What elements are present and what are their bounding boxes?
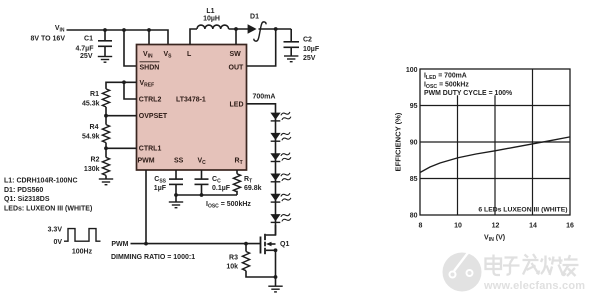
junction OUT node (274, 27, 278, 31)
capacitor C1 (75, 30, 112, 60)
LED 6 (270, 212, 292, 222)
svg-text:LT3478-1: LT3478-1 (176, 97, 206, 104)
wire PWM line (131, 243, 261, 245)
ground Q1 (268, 286, 282, 292)
svg-text:95: 95 (410, 103, 418, 110)
junction CTRL1 (104, 146, 108, 150)
svg-text:69.8k: 69.8k (244, 185, 262, 192)
wire VIN rail (67, 30, 169, 45)
capacitor CC (195, 176, 231, 192)
svg-text:85: 85 (410, 176, 418, 183)
svg-text:R4: R4 (90, 124, 99, 131)
svg-text:D1: PDS560: D1: PDS560 (4, 187, 43, 194)
svg-text:90: 90 (410, 140, 418, 147)
svg-text:100: 100 (406, 67, 418, 74)
junction Q1 source (274, 248, 278, 252)
svg-text:R3: R3 (229, 254, 238, 261)
svg-text:80: 80 (410, 213, 418, 220)
IC U1 LT3478-1 body (137, 45, 247, 171)
wire VC pin (201, 170, 203, 179)
LED 1 (270, 111, 292, 121)
wire LED chain (275, 113, 277, 235)
wire CTRL1 (106, 147, 137, 149)
graph annotations (424, 73, 512, 98)
svg-text:10µF: 10µF (303, 46, 320, 53)
svg-text:14: 14 (529, 223, 537, 230)
svg-text:L1: CDRH104R-100NC: L1: CDRH104R-100NC (4, 178, 78, 185)
svg-text:LEDs: LUXEON III (WHITE): LEDs: LUXEON III (WHITE) (4, 205, 92, 212)
svg-text:R2: R2 (91, 156, 100, 163)
wire OUT (247, 29, 276, 66)
resistor RT (233, 174, 261, 192)
junction SS bus (174, 193, 178, 197)
svg-text:www.elecfans.com: www.elecfans.com (483, 280, 585, 292)
wire LED pin (247, 104, 276, 113)
ground bus (169, 202, 183, 208)
svg-text:DIMMING RATIO = 1000:1: DIMMING RATIO = 1000:1 (111, 254, 195, 261)
wire to ground Q1 (275, 277, 277, 286)
watermark chinese characters (486, 254, 579, 276)
junction VREF-CTRL2 (122, 80, 126, 84)
svg-text:8: 8 (419, 223, 423, 230)
graph frame (420, 69, 570, 215)
junction VIN pin (147, 28, 151, 32)
svg-text:R1: R1 (90, 91, 99, 98)
LED 2 (270, 131, 292, 141)
wire source down (275, 250, 277, 277)
ground C1 (98, 57, 112, 63)
wire D1 to C2 (259, 28, 292, 30)
svg-text:25V: 25V (80, 53, 93, 60)
svg-text:C2: C2 (303, 37, 312, 44)
svg-text:54.9k: 54.9k (82, 133, 100, 140)
wire SW pin (235, 29, 237, 45)
svg-text:25V: 25V (303, 55, 316, 62)
label circuit notes (4, 178, 92, 213)
svg-text:700mA: 700mA (253, 93, 276, 100)
watermark logo circle (443, 246, 482, 292)
graph y-axis tick labels (406, 67, 418, 220)
junction C1 (103, 28, 107, 32)
capacitor CSS (154, 176, 183, 192)
wire R4 to R2 (105, 143, 107, 158)
wire L pin (190, 29, 197, 45)
LED 3 (270, 151, 292, 161)
graph x-axis tick labels (419, 223, 574, 230)
junction R3 top (244, 242, 248, 246)
resistor R4 (82, 124, 110, 143)
resistor R2 (84, 156, 110, 175)
svg-text:Q1: Q1 (280, 241, 289, 248)
wire VC to ground bus (201, 185, 203, 195)
LED 5 (270, 192, 292, 202)
junction SHDN (122, 28, 126, 32)
svg-text:SS: SS (174, 158, 184, 165)
svg-text:45.3k: 45.3k (82, 101, 100, 108)
svg-text:6 LEDs LUXEON III (WHITE): 6 LEDs LUXEON III (WHITE) (478, 207, 567, 214)
svg-text:L: L (187, 51, 192, 58)
junction OVPSET (104, 114, 108, 118)
junction SW (234, 27, 238, 31)
svg-text:10k: 10k (226, 264, 238, 271)
junction PWM pin (144, 242, 148, 246)
svg-text:OVPSET: OVPSET (139, 113, 168, 120)
svg-text:1µF: 1µF (154, 185, 167, 192)
wire OVPSET (106, 115, 137, 117)
graph gridlines (420, 69, 570, 215)
wire R1 to R4 (105, 107, 107, 125)
svg-text:SW: SW (230, 51, 242, 58)
junction R3 source (274, 275, 278, 279)
wire CTRL2 jumper (124, 82, 137, 99)
wire RT to ground bus (236, 191, 238, 195)
pin label SHDN (140, 62, 160, 72)
ground R2 (99, 179, 113, 185)
svg-text:100Hz: 100Hz (72, 248, 93, 255)
svg-text:D1: D1 (250, 14, 259, 21)
graph curve (420, 137, 570, 173)
transistor Q1 (261, 225, 290, 254)
svg-text:OUT: OUT (229, 64, 245, 71)
svg-text:Q1: Si2318DS: Q1: Si2318DS (4, 196, 50, 203)
capacitor C2 (284, 29, 320, 62)
svg-text:10: 10 (454, 223, 462, 230)
wire SHDN (124, 30, 137, 66)
svg-text:10µH: 10µH (203, 16, 220, 23)
wire SS to ground bus (175, 185, 177, 195)
svg-text:3.3V: 3.3V (48, 226, 63, 233)
svg-text:8V TO 16V: 8V TO 16V (30, 36, 65, 43)
junction VC bus (200, 193, 204, 197)
diode D1 (schottky) (248, 14, 266, 41)
inductor L1 (197, 8, 229, 29)
wire SS pin (175, 170, 177, 179)
resistor R1 (82, 89, 110, 108)
ground C2 (284, 56, 298, 62)
svg-text:130k: 130k (84, 166, 100, 173)
waveform PWM input (48, 226, 101, 255)
wire R2 to ground (105, 175, 107, 178)
wire PWM pin (145, 170, 147, 244)
wire RT pin (236, 170, 238, 174)
wire VREF (106, 82, 137, 89)
resistor R3 (226, 244, 275, 277)
svg-text:CTRL2: CTRL2 (139, 97, 162, 104)
svg-text:4.7µF: 4.7µF (75, 45, 94, 52)
svg-text:SHDN: SHDN (140, 64, 160, 71)
svg-text:LED: LED (230, 102, 244, 109)
wire inductor to D1 (229, 28, 248, 30)
wire ground bus (176, 194, 237, 196)
svg-text:PWM DUTY CYCLE = 100%: PWM DUTY CYCLE = 100% (424, 90, 512, 97)
svg-text:C1: C1 (84, 35, 93, 42)
svg-text:12: 12 (492, 223, 500, 230)
svg-text:16: 16 (566, 223, 574, 230)
wire bus to ground (175, 195, 177, 202)
svg-text:EFFICIENCY (%): EFFICIENCY (%) (394, 112, 403, 171)
LED 4 (270, 172, 292, 182)
svg-text:CTRL1: CTRL1 (139, 146, 162, 153)
node VIN input label (30, 25, 65, 43)
svg-text:L1: L1 (206, 8, 214, 15)
wire VIN pin (148, 30, 150, 45)
svg-text:0.1µF: 0.1µF (212, 185, 231, 192)
svg-text:PWM: PWM (111, 241, 128, 248)
svg-text:PWM: PWM (138, 158, 155, 165)
svg-text:0V: 0V (53, 239, 62, 246)
